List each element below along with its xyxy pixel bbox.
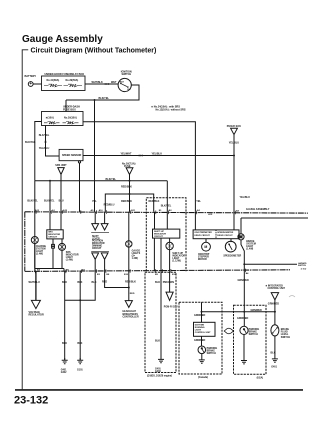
wire label BLK xyxy=(62,281,67,284)
svg-text:PARKING: PARKING xyxy=(207,347,218,350)
bottom pin B6 xyxy=(66,270,70,272)
svg-text:(1.4W): (1.4W) xyxy=(36,252,43,255)
wire speed sensor output down xyxy=(79,163,81,212)
charge system light xyxy=(31,237,38,244)
svg-text:CONTROLLER: CONTROLLER xyxy=(123,317,139,319)
svg-text:(Canada): (Canada) xyxy=(198,377,208,379)
svg-text:SWITCH: SWITCH xyxy=(298,265,306,267)
brake fluid level switch xyxy=(271,325,279,336)
parking brake switch label (Canada) xyxy=(207,347,218,355)
pin ticks top edge xyxy=(36,210,235,214)
wire label GRN/RED xyxy=(238,279,249,282)
svg-text:(1.4W): (1.4W) xyxy=(66,259,73,262)
bottom pin B3 xyxy=(97,274,101,276)
dimmer feed jog wire xyxy=(105,270,130,300)
brake warning wire GRN/RED down xyxy=(243,270,245,326)
page number 23-132 xyxy=(14,395,48,407)
svg-text:A4: A4 xyxy=(246,272,250,275)
battery B1 xyxy=(28,82,33,87)
wire integrated control unit down xyxy=(274,300,276,325)
svg-text:GRN/RED: GRN/RED xyxy=(268,303,279,306)
SRS indicator light wire xyxy=(52,239,62,269)
wire label YEL/BLU xyxy=(229,141,240,144)
svg-text:G401: G401 xyxy=(61,369,67,372)
SRS indicator circuit label xyxy=(48,232,60,239)
wire label YEL xyxy=(92,200,97,203)
gauge assembly box bottom edge xyxy=(25,270,290,272)
svg-text:GRN/RED: GRN/RED xyxy=(194,314,205,317)
ground G101 xyxy=(77,358,83,364)
svg-text:BLK/YEL: BLK/YEL xyxy=(25,141,36,144)
wire into under-dash fuse box xyxy=(65,100,67,112)
connector arrow xyxy=(105,83,110,85)
pin A16 xyxy=(99,209,104,212)
svg-text:Gauge Assembly: Gauge Assembly xyxy=(22,34,103,45)
shift-up indicator light xyxy=(166,242,173,249)
ground G401 G403 xyxy=(158,357,164,363)
svg-text:GRN/RED: GRN/RED xyxy=(251,309,262,312)
dashed variant box above gauge (A/T) xyxy=(146,198,186,271)
Canada feed stub wire xyxy=(201,302,203,322)
wire label GRN/RED xyxy=(194,314,205,317)
svg-text:FUSE BOX: FUSE BOX xyxy=(63,108,76,111)
svg-text:CIRCUIT: CIRCUIT xyxy=(48,237,58,239)
speed sensor label xyxy=(62,154,81,157)
odo/trip stepper motor label xyxy=(198,254,210,261)
ground wire 1 xyxy=(64,271,66,360)
dash light fuse connector xyxy=(122,162,136,174)
svg-text:SWITCH: SWITCH xyxy=(207,353,217,355)
svg-text:YEL/BLU: YEL/BLU xyxy=(240,196,251,199)
svg-text:MOTOR: MOTOR xyxy=(198,259,207,261)
svg-text:A2: A2 xyxy=(197,209,201,212)
wire label BLK/YEL xyxy=(99,97,110,100)
wire label RED/BLU xyxy=(104,204,115,207)
svg-text:A8: A8 xyxy=(236,209,240,212)
pin B1 xyxy=(159,210,163,212)
svg-text:BLK: BLK xyxy=(271,352,276,355)
svg-text:YEL/BLU: YEL/BLU xyxy=(229,141,240,144)
charge system light label xyxy=(36,245,47,256)
wire label GRN/RED xyxy=(194,339,205,342)
svg-text:UNDER-HOOD FUSE/RELAY BOX: UNDER-HOOD FUSE/RELAY BOX xyxy=(45,73,85,76)
wire label WHT/BLK xyxy=(92,81,103,84)
under-dash fuse box label xyxy=(63,106,80,112)
svg-text:BLK/YEL: BLK/YEL xyxy=(39,134,50,137)
svg-text:∗ INTEGRATED: ∗ INTEGRATED xyxy=(265,285,283,288)
wire bus right end drop B2 xyxy=(166,181,168,212)
svg-text:BRIGHTNESS: BRIGHTNESS xyxy=(123,314,139,316)
svg-text:SWITCH: SWITCH xyxy=(122,73,132,76)
bottom pin B16 xyxy=(172,274,177,276)
variant dashed box (engine type) xyxy=(145,272,176,372)
brake fluid level switch label xyxy=(281,328,291,339)
svg-text:CIRCUIT: CIRCUIT xyxy=(92,248,102,250)
svg-text:DRIVE CIRCUIT: DRIVE CIRCUIT xyxy=(194,235,210,237)
svg-text:IG1: IG1 xyxy=(127,89,131,91)
link label GRN/RED xyxy=(251,309,262,312)
svg-text:YEL: YEL xyxy=(196,200,201,203)
svg-text:PGM-FI ECU: PGM-FI ECU xyxy=(227,125,242,128)
wire label RED/BLK xyxy=(121,200,132,203)
terminal label IG1 xyxy=(127,89,131,91)
bus label RED/BLK xyxy=(121,186,132,189)
wire label PNK/GRN xyxy=(163,281,174,284)
pin A1 xyxy=(52,209,56,212)
svg-text:BLU: BLU xyxy=(59,199,64,202)
SRS indicator circuit box xyxy=(47,230,63,239)
svg-text:BLK: BLK xyxy=(62,342,67,345)
USA box label xyxy=(257,376,264,379)
SRS indicator light xyxy=(59,243,66,250)
subtitle Circuit Diagram (Without Tachometer) xyxy=(31,48,157,55)
brake system light wire xyxy=(241,218,308,270)
fuse No.39 (50A) xyxy=(64,79,83,87)
svg-text:YEL: YEL xyxy=(92,200,97,203)
ignition switch label xyxy=(121,71,132,77)
shift lever dimming output connector 1 xyxy=(92,253,99,272)
shift lever dimming output connector 2 xyxy=(101,253,108,272)
parking brake switch label (USA) xyxy=(249,328,260,336)
svg-text:YEL/BLU: YEL/BLU xyxy=(39,147,50,150)
bottom pin B7 xyxy=(82,270,86,272)
wire label BLK xyxy=(92,281,97,284)
svg-text:B10: B10 xyxy=(124,274,129,276)
svg-text:No.39(50A): No.39(50A) xyxy=(66,79,79,82)
svg-text:RED/BLU: RED/BLU xyxy=(104,204,115,207)
ground G401/G402 xyxy=(62,358,68,364)
terminal label BAT xyxy=(120,80,125,83)
ground wire 2 xyxy=(79,271,81,360)
fuse No.41 (80A) xyxy=(44,79,62,87)
svg-text:(D16Z6, D16Z8 engine): (D16Z6, D16Z8 engine) xyxy=(147,376,172,378)
svg-text:M: M xyxy=(204,245,207,249)
brake system light label xyxy=(246,240,256,251)
svg-text:DRIVE CIRCUIT: DRIVE CIRCUIT xyxy=(217,235,233,237)
svg-text:YEL/BLU: YEL/BLU xyxy=(152,153,163,156)
svg-text:RED: RED xyxy=(102,280,107,283)
odo/trip stepper motor xyxy=(202,242,211,251)
shift-up indicator circuit label xyxy=(154,231,166,238)
SRS unit connector xyxy=(55,164,67,174)
BLK/YEL horizontal bus xyxy=(35,180,168,182)
wire to right off page xyxy=(243,262,307,271)
svg-text:G402: G402 xyxy=(61,371,67,374)
svg-text:WHT/BLU: WHT/BLU xyxy=(29,281,40,284)
parking brake switch (Canada) xyxy=(198,346,206,354)
voltage regulator label xyxy=(29,311,44,317)
svg-text:A10: A10 xyxy=(208,213,213,216)
wire label BLK xyxy=(77,342,82,345)
pin A13 xyxy=(35,209,40,212)
svg-text:BAT: BAT xyxy=(120,80,125,83)
speed sensor box xyxy=(59,149,83,160)
wire to ground (USA) xyxy=(243,335,245,361)
wire label BLK/YEL xyxy=(44,199,55,202)
under-dash fuse box xyxy=(42,112,84,126)
bottom pin B10 xyxy=(124,274,129,276)
wire bus drop A13 xyxy=(34,181,36,212)
pin A15 xyxy=(63,209,68,212)
faint pencil mark xyxy=(289,296,295,298)
wire PGM-FI ECU down to pin A8 xyxy=(233,135,235,213)
svg-text:(1.4W): (1.4W) xyxy=(246,248,253,251)
PGM-FI ECU connector (top right) xyxy=(227,125,242,135)
svg-text:G401: G401 xyxy=(155,368,161,371)
gauge assembly box left edge xyxy=(24,212,26,271)
wire label BLK/YEL (in dashed area) xyxy=(161,204,172,207)
svg-text:No.41(80A): No.41(80A) xyxy=(47,79,60,82)
svg-text:A15: A15 xyxy=(63,209,68,212)
gauge assembly box top edge xyxy=(25,212,308,213)
pin A8 xyxy=(236,209,240,212)
ground (Canada) xyxy=(199,354,205,364)
svg-text:SWITCH: SWITCH xyxy=(281,337,291,339)
speedometer drive circuit label xyxy=(217,232,233,237)
svg-text:BLK: BLK xyxy=(155,340,160,343)
pin ticks bottom edge xyxy=(35,269,245,274)
svg-text:PARKING: PARKING xyxy=(249,328,260,331)
svg-text:BLK: BLK xyxy=(77,342,82,345)
wire label YEL/BLU xyxy=(152,153,163,156)
battery label xyxy=(25,75,37,78)
svg-text:BRAKE: BRAKE xyxy=(249,331,258,334)
svg-text:B8: B8 xyxy=(106,274,110,276)
ignition switch xyxy=(118,78,131,91)
svg-text:RED/BLK: RED/BLK xyxy=(149,200,160,203)
wire fuse box bottom exit to speed sensor xyxy=(46,126,60,157)
wire label RED xyxy=(102,280,136,295)
odo/trip stepper motor wire xyxy=(205,239,207,243)
bottom pin B4 xyxy=(37,269,41,272)
voltage regulator connector xyxy=(31,300,40,308)
svg-text:∗(10A): ∗(10A) xyxy=(46,117,54,120)
svg-text:G101: G101 xyxy=(77,370,83,372)
gauge lights label xyxy=(132,250,141,261)
daytime running light control unit box xyxy=(194,322,216,336)
junction link wire xyxy=(201,311,276,313)
svg-text:1.4W): 1.4W) xyxy=(132,257,138,260)
connector mark xyxy=(45,141,47,143)
wire label BLK xyxy=(62,342,67,345)
svg-text:PNK/GRN: PNK/GRN xyxy=(163,281,174,284)
svg-text:GRN/RED: GRN/RED xyxy=(237,317,248,320)
wire speed sensor signal right YEL/WHT to YEL/BLU xyxy=(83,155,234,157)
frame bracket and left frame line xyxy=(22,50,28,389)
svg-text:B2: B2 xyxy=(169,210,173,212)
svg-text:BLK: BLK xyxy=(155,281,160,284)
wire label YEL/WHT xyxy=(121,153,132,156)
power wire into odo/trip drive circuit xyxy=(194,212,196,230)
svg-text:SWITCH: SWITCH xyxy=(249,334,259,336)
dash brightness controller label xyxy=(123,310,139,319)
USA dashed box xyxy=(234,305,267,374)
svg-text:Circuit Diagram (Without Tacho: Circuit Diagram (Without Tachometer) xyxy=(31,48,157,55)
shift lever position indicator dimming circuit label xyxy=(91,232,109,251)
svg-text:CONTROL UNIT: CONTROL UNIT xyxy=(195,332,211,334)
gauge assembly label xyxy=(246,208,270,211)
wire to ground xyxy=(274,336,276,359)
svg-text:BLK/YEL: BLK/YEL xyxy=(44,199,55,202)
wire DRL to parking brake switch xyxy=(201,336,203,346)
ground label G101 xyxy=(77,370,83,372)
wire SRS unit down to pin A15 xyxy=(60,174,62,211)
svg-text:No.12(10A) : without SRS: No.12(10A) : without SRS xyxy=(156,108,186,111)
svg-text:BRAKE: BRAKE xyxy=(207,349,216,352)
bus label BLK/YEL xyxy=(106,178,117,181)
ground label G401 G402 xyxy=(61,369,67,375)
pin A2 xyxy=(197,209,201,212)
connector arrow xyxy=(139,155,144,157)
fuse No.24/No.12 (10A) xyxy=(44,117,60,124)
shift-up indicator light wire xyxy=(169,238,171,271)
svg-text:B1: B1 xyxy=(159,210,163,212)
svg-text:BLK: BLK xyxy=(62,281,67,284)
svg-text:CIRCUIT: CIRCUIT xyxy=(154,236,164,238)
shift-up indicator light label xyxy=(172,253,185,263)
ground G401 xyxy=(272,359,278,362)
bottom pin A4 xyxy=(246,272,250,275)
dash brightness controller connector xyxy=(125,301,132,308)
shift lever dimming input connector 2 xyxy=(101,212,108,230)
svg-text:SPEEDOMETER: SPEEDOMETER xyxy=(223,256,241,258)
speedometer wire xyxy=(230,239,232,242)
wire label WHT xyxy=(111,81,117,84)
Canada dashed box xyxy=(179,302,222,374)
pin B11 xyxy=(131,210,136,212)
svg-text:G401: G401 xyxy=(271,366,277,369)
wire battery to under-hood fuse box xyxy=(33,83,41,85)
title Gauge Assembly xyxy=(22,34,103,45)
bottom pin B8 xyxy=(106,274,110,276)
svg-text:REGULATOR: REGULATOR xyxy=(29,314,44,317)
wire label BLK/YEL (right of A2) xyxy=(196,196,250,203)
gauge lights wire xyxy=(128,212,130,271)
lamp cathode bus xyxy=(35,244,64,272)
shift-up circuit ground wire xyxy=(154,238,161,271)
svg-text:YEL/WHT: YEL/WHT xyxy=(121,153,132,156)
wire fuse connector down to pin B11 xyxy=(129,175,131,212)
integrated control unit label xyxy=(265,285,285,291)
wire label BLK/YEL xyxy=(27,199,38,202)
svg-text:BLK/YEL: BLK/YEL xyxy=(99,97,110,100)
svg-text:GRN/RED: GRN/RED xyxy=(194,339,205,342)
PGM-FI ECU connector (bottom) xyxy=(166,292,173,300)
ground label xyxy=(155,368,161,374)
wire label BLK xyxy=(155,281,160,284)
shift-up signal wire PNK/GRN xyxy=(169,271,171,292)
integrated control unit connector xyxy=(271,293,278,300)
svg-text:SPEED SENSOR: SPEED SENSOR xyxy=(62,154,81,157)
svg-text:(1.12W): (1.12W) xyxy=(172,261,181,263)
gauge lights xyxy=(126,241,132,247)
shift lever dimming input connector 1 xyxy=(92,212,99,230)
pin A10 xyxy=(208,213,213,216)
dimming ground jog wire xyxy=(65,271,96,301)
speedometer xyxy=(225,241,236,252)
wire ignition IG1 down and left (BLK/YEL) xyxy=(66,85,139,100)
svg-text:BLK: BLK xyxy=(92,281,97,284)
svg-text:BLK/YEL: BLK/YEL xyxy=(27,199,38,202)
svg-text:WHT: WHT xyxy=(111,81,117,84)
brake system light xyxy=(238,234,244,240)
svg-text:RED/BLK: RED/BLK xyxy=(121,186,132,189)
wire label RED/BLK (dashed area) xyxy=(149,200,160,203)
SRS indicator light label xyxy=(66,252,79,262)
speed sensor bottom terminal xyxy=(78,161,80,163)
under-hood fuse/relay box xyxy=(42,76,86,91)
ground (USA) xyxy=(241,361,247,364)
RED/BLK horizontal bus xyxy=(105,194,153,212)
wavy continuation symbol xyxy=(224,328,233,334)
odo/tripmeter and speedometer drive circuit box xyxy=(193,230,239,239)
svg-text:RED: RED xyxy=(130,293,135,295)
voltage regulator wire WHT/BLU xyxy=(35,271,37,300)
svg-text:CONTROL UNIT: CONTROL UNIT xyxy=(268,288,286,290)
svg-text:SRS UNIT: SRS UNIT xyxy=(55,164,67,167)
wire label BLU xyxy=(59,199,64,202)
svg-text:GAUGE ASSEMBLY: GAUGE ASSEMBLY xyxy=(246,208,270,211)
svg-text:BLK/YEL: BLK/YEL xyxy=(161,204,172,207)
Canada box label xyxy=(198,377,208,379)
shift-up ground wire into variant box xyxy=(160,271,162,359)
svg-text:B3: B3 xyxy=(97,274,101,276)
pin A9 xyxy=(91,209,95,212)
svg-text:WHT/BLK: WHT/BLK xyxy=(92,81,103,84)
shift-up indicator circuit box xyxy=(153,229,180,238)
wire label GRN/RED xyxy=(237,317,248,320)
svg-text:A9: A9 xyxy=(91,209,95,212)
under-hood fuse box label xyxy=(45,73,85,76)
variant box label xyxy=(147,376,172,378)
svg-text:B5: B5 xyxy=(155,274,159,276)
wire fuse box right exit to gauge pin A2 xyxy=(83,122,195,212)
bottom frame line xyxy=(15,389,303,391)
svg-text:BATTERY: BATTERY xyxy=(25,75,37,78)
svg-text:GRN/RED: GRN/RED xyxy=(238,279,249,282)
svg-text:(USA): (USA) xyxy=(257,376,264,379)
svg-text:B11: B11 xyxy=(131,210,136,212)
wire from ignition feed down pin A9 xyxy=(94,99,96,212)
speedo signal wire and branch xyxy=(233,212,235,230)
wire label GRN/RED xyxy=(268,303,279,306)
svg-text:BLK/YEL: BLK/YEL xyxy=(106,178,117,181)
daytime running light control unit label xyxy=(195,324,211,334)
wire bus drop A1 xyxy=(49,180,51,212)
svg-text:RED/BLK: RED/BLK xyxy=(121,200,132,203)
svg-text:23-132: 23-132 xyxy=(14,395,48,407)
bottom pin B5 xyxy=(155,274,159,276)
speedometer label xyxy=(223,256,241,258)
SRS indicator circuit input wires xyxy=(50,212,61,230)
wire fuse box to ignition switch xyxy=(85,83,118,85)
wire label BLK xyxy=(155,340,160,343)
fuse No.16 (10A) xyxy=(63,117,79,124)
svg-text:BRAKE: BRAKE xyxy=(281,328,290,331)
svg-text:∗ ICU: ∗ ICU xyxy=(301,268,307,271)
wire label BLK xyxy=(271,352,276,355)
svg-text:HEADLIGHT: HEADLIGHT xyxy=(123,310,137,313)
wire label BLK xyxy=(77,281,82,284)
pin B2 xyxy=(169,210,173,212)
PGM-FI ECU label xyxy=(164,307,178,309)
parking brake switch (USA) xyxy=(240,326,248,334)
ground label G401 xyxy=(271,366,277,369)
charge system light wire xyxy=(34,212,36,271)
svg-text:A16: A16 xyxy=(99,209,104,212)
wire fuse box left exit BLK/YEL rail xyxy=(35,122,42,181)
wire label BLK/YEL xyxy=(39,134,50,137)
